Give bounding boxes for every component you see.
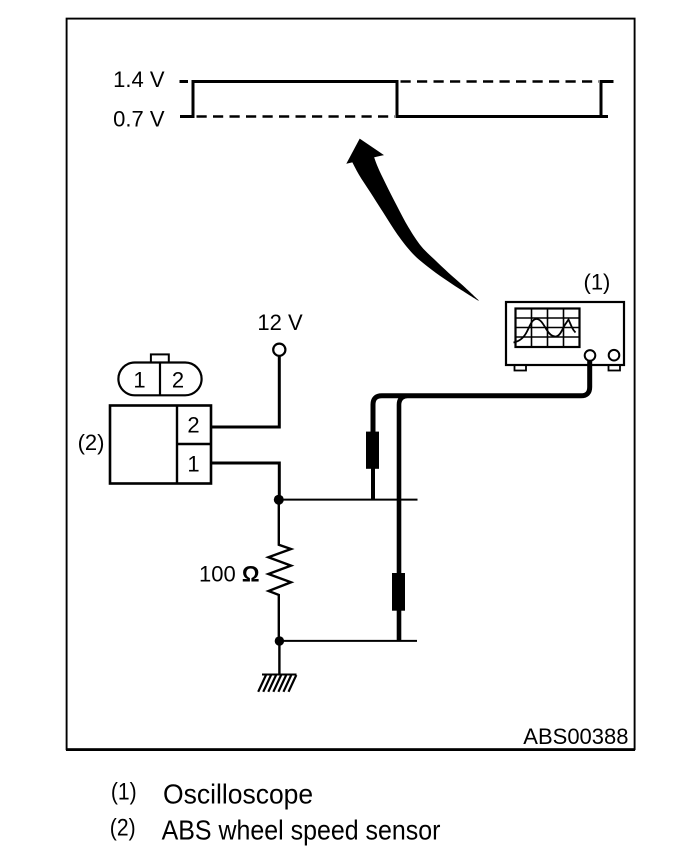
probe blob A xyxy=(366,432,379,469)
ABS sensor box (2) xyxy=(110,406,211,484)
svg-text:Oscilloscope: Oscilloscope xyxy=(163,778,313,810)
probe blob B xyxy=(392,573,405,611)
ground xyxy=(258,675,296,692)
svg-text:2: 2 xyxy=(187,413,199,438)
curved arrow to waveform xyxy=(346,139,478,301)
dashed 1.4V level xyxy=(401,80,600,83)
svg-text:(1): (1) xyxy=(111,778,137,805)
oscilloscope U1 xyxy=(506,302,624,371)
wire node A horizontal xyxy=(279,499,418,501)
svg-text:2: 2 xyxy=(172,367,184,392)
svg-text:1: 1 xyxy=(133,367,145,392)
tick 1.4V level xyxy=(180,80,189,83)
svg-text:(1): (1) xyxy=(584,270,611,295)
svg-text:0.7 V: 0.7 V xyxy=(113,107,165,132)
12V terminal xyxy=(273,344,285,356)
connector plug face xyxy=(118,354,201,395)
svg-text:1: 1 xyxy=(187,451,199,476)
wire to ground xyxy=(278,641,280,674)
svg-text:100 Ω: 100 Ω xyxy=(199,562,259,587)
wire below blob A xyxy=(371,468,375,499)
scope cable wire B xyxy=(399,396,407,641)
svg-text:ABS wheel speed sensor: ABS wheel speed sensor xyxy=(162,814,441,846)
wire pin1 to node A xyxy=(211,463,279,497)
resistor 100 ohm xyxy=(268,504,291,637)
scope cable wire xyxy=(373,361,590,432)
node A junction dot xyxy=(274,495,284,505)
wire node B horizontal xyxy=(279,640,417,642)
node B junction dot xyxy=(275,636,284,645)
wire 12V to pin2 xyxy=(211,356,279,427)
svg-text:1.4 V: 1.4 V xyxy=(113,67,165,92)
svg-text:(2): (2) xyxy=(78,430,105,455)
svg-text:(2): (2) xyxy=(110,814,136,841)
svg-text:12 V: 12 V xyxy=(257,310,303,335)
dashed 0.7V level xyxy=(197,115,396,118)
svg-text:ABS00388: ABS00388 xyxy=(523,724,628,749)
waveform square wave xyxy=(180,82,614,117)
border frame xyxy=(67,19,635,750)
